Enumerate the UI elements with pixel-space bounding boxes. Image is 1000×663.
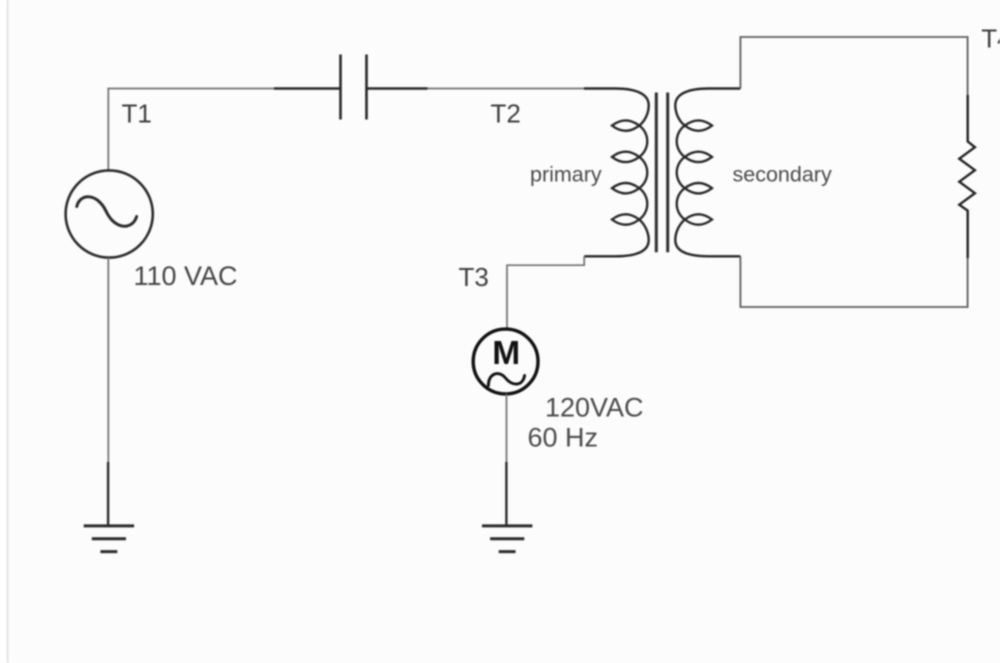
- ground symbol (center): [482, 462, 532, 552]
- svg-text:M: M: [492, 335, 520, 372]
- svg-text:T3: T3: [459, 262, 489, 292]
- svg-text:T4: T4: [981, 24, 1000, 54]
- wire: motor to ground (right-center): [506, 394, 508, 463]
- transformer core: [656, 93, 667, 253]
- transformer T: primary winding: [584, 89, 649, 257]
- svg-text:primary: primary: [530, 163, 602, 187]
- wire: primary bottom step to T3 node: [507, 256, 584, 329]
- wire: T1 node top-left corner, horizontal run to capacitor: [108, 89, 274, 171]
- ground symbol (left): [84, 462, 134, 552]
- svg-text:T2: T2: [491, 99, 521, 129]
- transformer T: secondary winding: [675, 89, 740, 257]
- svg-text:110 VAC: 110 VAC: [134, 261, 238, 291]
- resistor R1: [959, 95, 975, 258]
- svg-text:60 Hz: 60 Hz: [528, 423, 599, 453]
- svg-text:120VAC: 120VAC: [545, 393, 644, 423]
- capacitor C1: [274, 55, 428, 120]
- wire: capacitor to transformer primary: [428, 88, 585, 90]
- wire: AC source to ground (left): [107, 258, 109, 464]
- svg-text:secondary: secondary: [733, 163, 832, 187]
- AC source V1 110 VAC: [66, 170, 153, 257]
- svg-text:T1: T1: [122, 99, 152, 129]
- motor M1: [473, 329, 538, 394]
- wire: secondary loop (top, right side, bottom): [740, 37, 967, 96]
